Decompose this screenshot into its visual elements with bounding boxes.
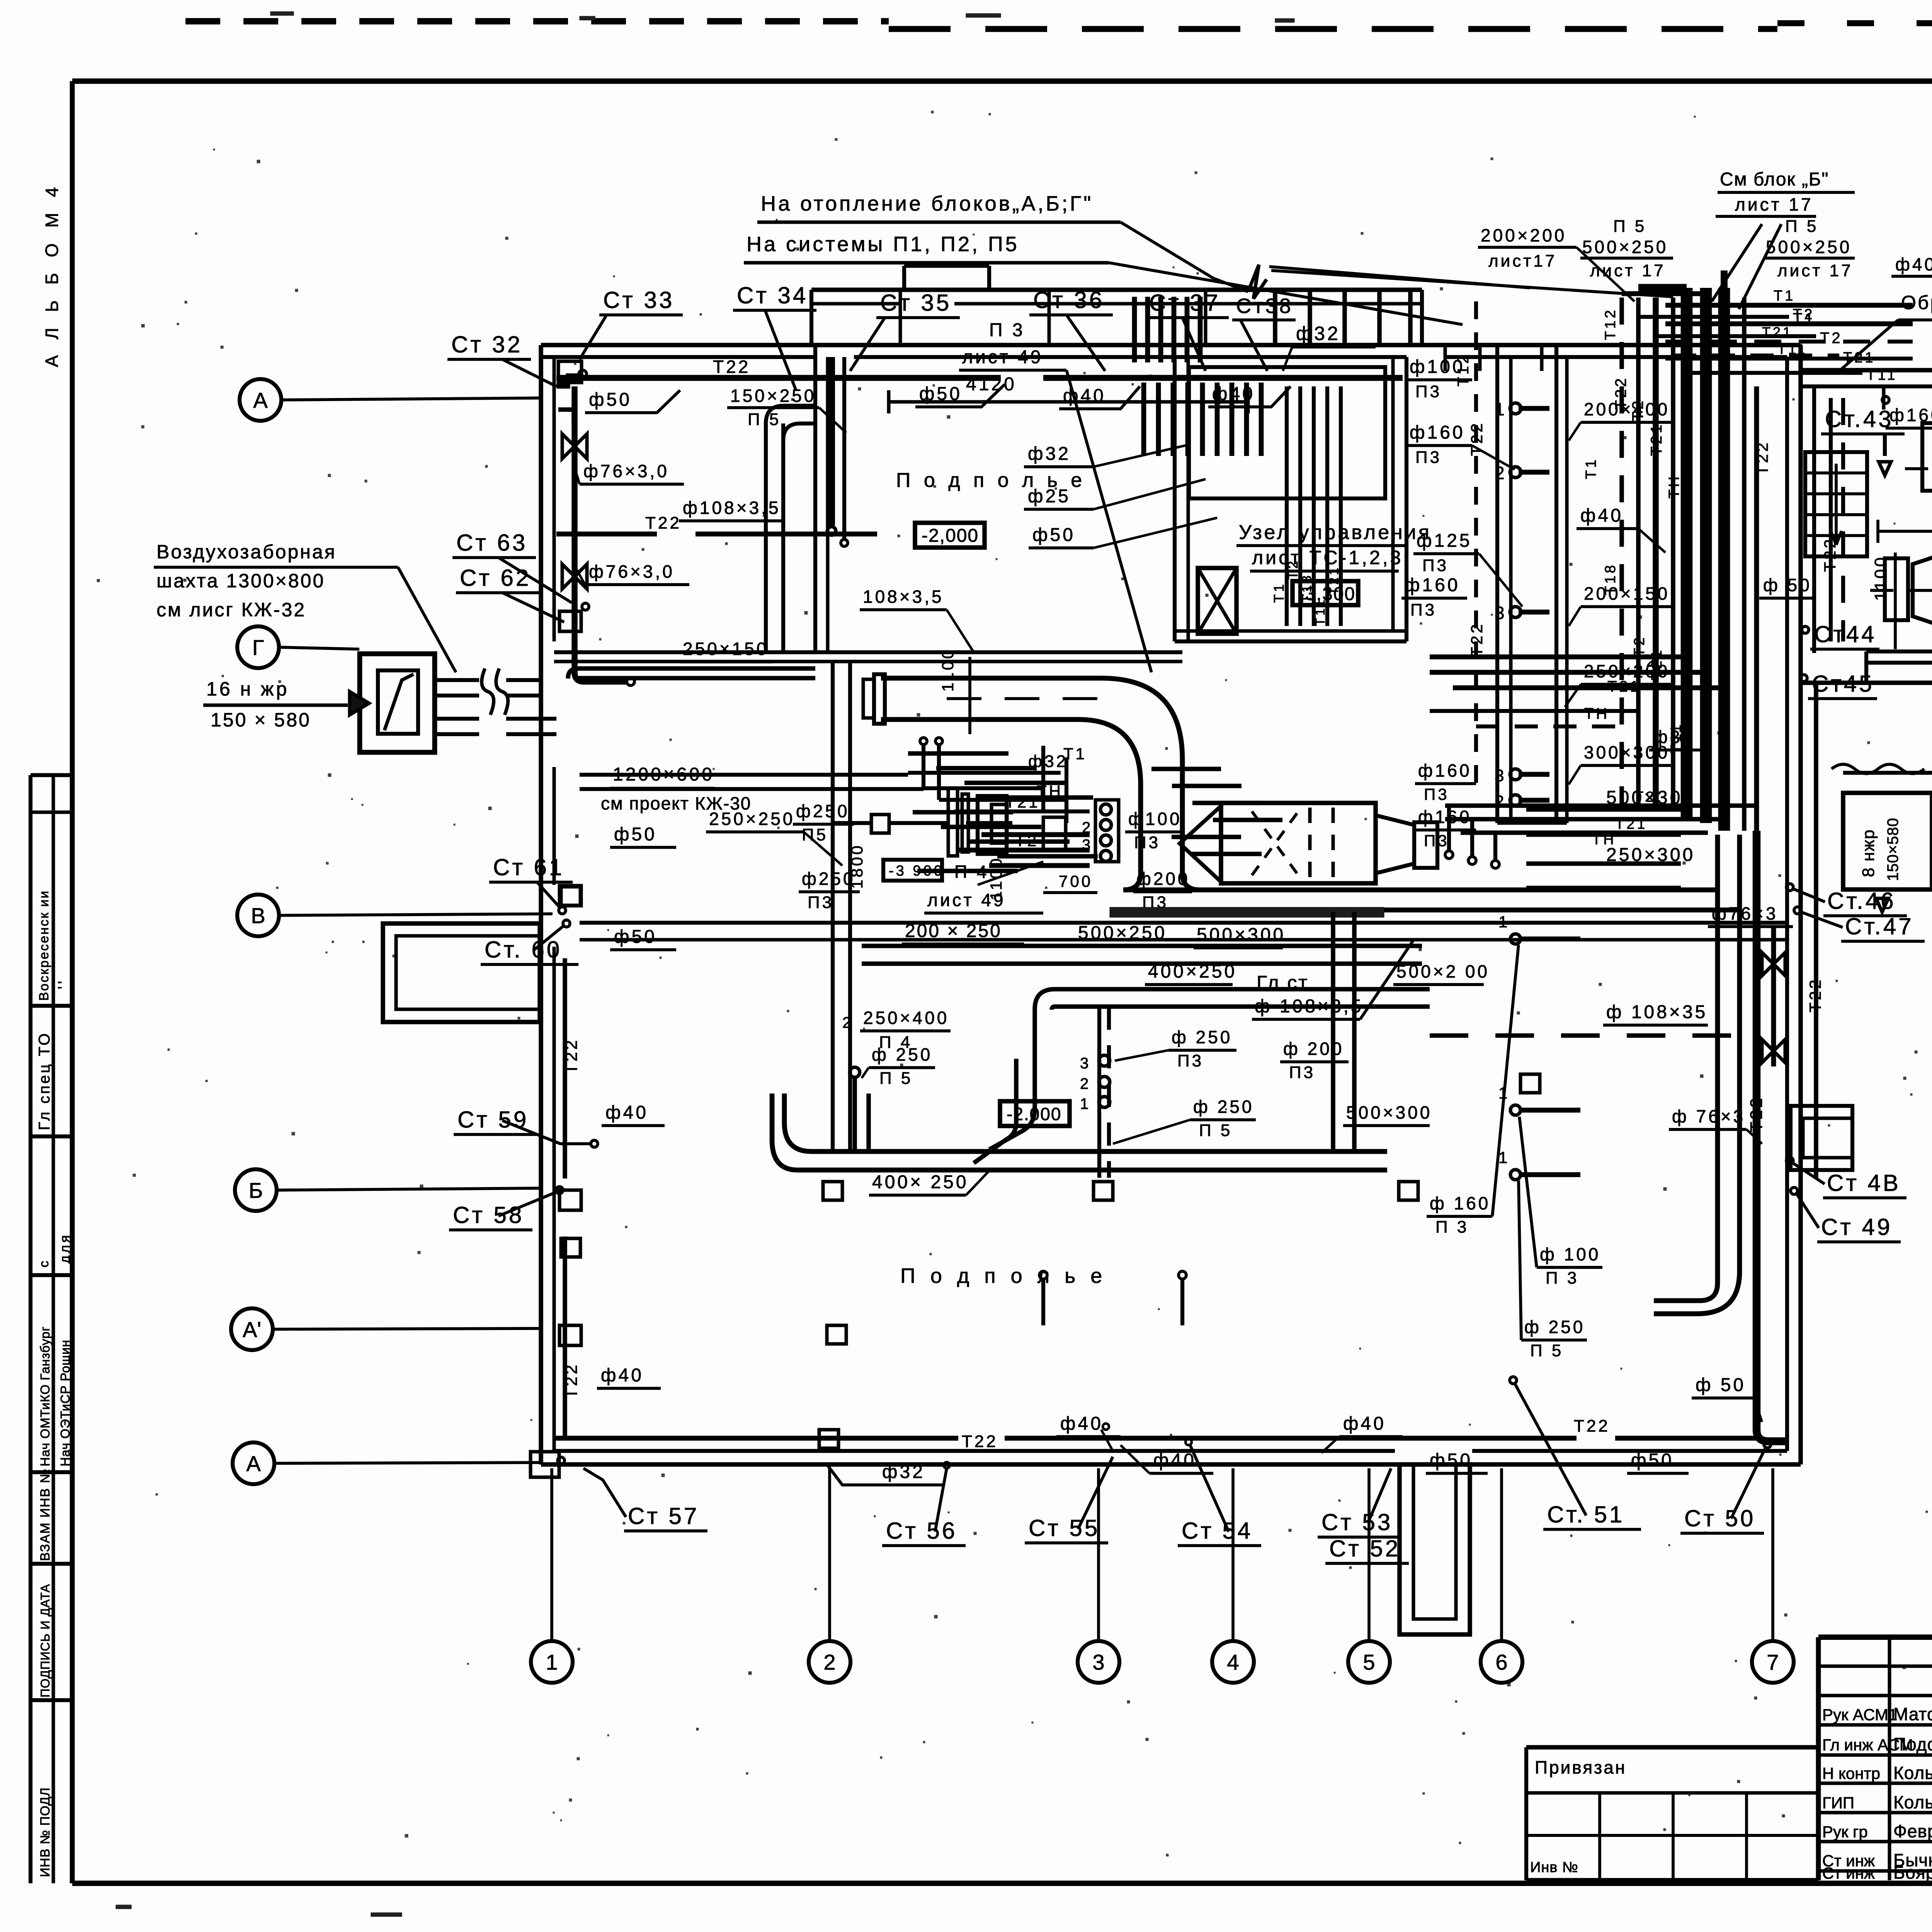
svg-text:500×250: 500×250 [1766, 237, 1852, 257]
svg-text:Т2: Т2 [1634, 653, 1657, 670]
left outer wall [541, 345, 554, 1464]
svg-text:Ст.46: Ст.46 [1827, 888, 1896, 914]
label ф40 bottom (3) [1321, 1413, 1403, 1453]
svg-text:ф40: ф40 [1343, 1413, 1386, 1434]
svg-text:П 5: П 5 [1613, 217, 1646, 236]
stack label Ст 37 [1145, 290, 1229, 371]
svg-text:ТН: ТН [1666, 474, 1682, 498]
label 200x200 лист17 [1478, 225, 1634, 301]
stack Ст.60 [481, 920, 578, 964]
svg-text:Ст 58: Ст 58 [453, 1202, 524, 1228]
svg-text:с: с [37, 1259, 51, 1267]
label ф50 (top left) [585, 389, 680, 413]
svg-text:ф50: ф50 [1430, 1450, 1473, 1471]
axis circle 6 (bottom) [1481, 1468, 1522, 1683]
svg-text:ф32: ф32 [882, 1462, 925, 1482]
svg-text:500×2 00: 500×2 00 [1396, 961, 1490, 981]
label ф50 bottom (2) [1627, 1450, 1689, 1473]
svg-text:ф32: ф32 [1653, 727, 1694, 747]
axis circle 5 (bottom) [1348, 1468, 1390, 1683]
stack Ст 50 [1680, 1441, 1771, 1533]
label ф40 top right [1891, 254, 1932, 276]
svg-text:Т21: Т21 [1648, 422, 1665, 456]
svg-text:П3: П3 [1289, 1063, 1315, 1082]
axis circle Г [237, 626, 359, 668]
annex left interior wall [1812, 386, 1816, 653]
svg-text:ТН: ТН [1592, 832, 1616, 848]
stack label Ст 32 [447, 332, 556, 386]
узел управления label [1236, 521, 1432, 571]
annex top wall [1801, 370, 1932, 386]
svg-text:А: А [246, 1451, 261, 1476]
svg-text:3: 3 [1080, 1055, 1091, 1072]
room rect (ф40 room top) [1189, 367, 1385, 498]
label ф32 Т1 / ТН / Т21 / Т2 small pipe labels [1005, 745, 1087, 850]
label 2(50)... vertical duct П5 pair mid-left [833, 662, 850, 1151]
riser group2 (Т pipes below band) [1271, 386, 1341, 626]
label ф125 П3 [1413, 531, 1522, 607]
svg-text:П 3: П 3 [1435, 1218, 1469, 1236]
stack Ст 58 [449, 1187, 563, 1230]
stack label Ст 36 [1029, 287, 1113, 371]
svg-text:П3: П3 [1134, 833, 1160, 852]
stack Ст.47 [1794, 907, 1925, 941]
label ф40 (corr) [1577, 505, 1665, 553]
svg-text:ф76×3,0: ф76×3,0 [583, 461, 669, 481]
svg-text:ф160: ф160 [1889, 405, 1932, 425]
riser stubs П3 in corridor [1495, 399, 1549, 811]
duct 400x250 run 2 [1035, 989, 1430, 1059]
duct 250x150 under wall [568, 668, 815, 679]
svg-text:1100: 1100 [1871, 555, 1890, 601]
ф76х3 pipe with valves on right wall [1708, 903, 1793, 1066]
stack label Ст 33 [580, 287, 683, 359]
svg-text:200×400: 200×400 [1584, 399, 1670, 419]
note: На системы П1,П2,П5 [744, 233, 1463, 325]
horizontal mains lower (250x200 crossing) [1445, 789, 1754, 868]
label ф32/ф25/ф50 stack [1024, 444, 1217, 548]
svg-text:ф160: ф160 [1418, 807, 1472, 827]
svg-text:Т21: Т21 [1615, 816, 1647, 832]
axis circle 3 (bottom) [1078, 1468, 1119, 1683]
svg-text:Гл спец ТО: Гл спец ТО [36, 1031, 53, 1130]
svg-text:700: 700 [1059, 872, 1093, 890]
stack label Ст 35 [850, 290, 960, 371]
svg-text:для: для [57, 1233, 73, 1264]
pipe T22/T12 dashed vertical (corridor) [1455, 301, 1486, 792]
svg-text:Ст 53: Ст 53 [1321, 1509, 1393, 1535]
svg-text:ф125: ф125 [1417, 531, 1472, 551]
svg-text:400×250: 400×250 [1148, 961, 1237, 982]
svg-text:Т22: Т22 [1747, 1096, 1766, 1132]
label 300x300 [1569, 742, 1673, 784]
stack Ст44 [1802, 621, 1879, 649]
duct under машина to right [1123, 873, 1740, 910]
svg-text:П 3: П 3 [989, 320, 1025, 340]
label 1200x600 / см проект КЖ-30 [601, 764, 751, 813]
elevator shaft (узел упр.) [1198, 568, 1236, 634]
axis circle 2 (bottom) [809, 1468, 850, 1683]
dim 1100 (duct) [939, 648, 970, 734]
insulated main 500x250 (hatched band) [1110, 907, 1384, 917]
svg-text:ф250: ф250 [796, 801, 850, 821]
svg-text:Г: Г [252, 635, 264, 660]
horizontal mains into block (from bundle) [1430, 653, 1724, 726]
svg-text:200×150: 200×150 [1584, 583, 1670, 604]
stack Ст45 [1800, 671, 1877, 699]
axis circle А (bottom) [233, 1442, 540, 1484]
title block (штамп) [1818, 1637, 1932, 1883]
label ф200 П3 (center) [1133, 869, 1192, 912]
stack Ст 55 [1025, 1457, 1113, 1543]
svg-text:Ст 35: Ст 35 [880, 290, 951, 316]
svg-text:Ст.43: Ст.43 [1825, 406, 1894, 432]
label 500x200 [1393, 961, 1490, 985]
svg-text:8 нжр: 8 нжр [1859, 829, 1878, 877]
svg-text:16 н жр: 16 н жр [206, 678, 289, 700]
svg-text:1: 1 [1495, 399, 1507, 419]
svg-text:П 5: П 5 [1199, 1121, 1232, 1140]
svg-text:ф32: ф32 [1028, 444, 1071, 464]
svg-text:А': А' [243, 1317, 261, 1342]
svg-text:Нач ОЭТиСР Рощин: Нач ОЭТиСР Рощин [58, 1340, 72, 1466]
pipe T22 in gap (x4700) lower [1806, 683, 1824, 1179]
label ф50 (2) [915, 384, 1005, 407]
main duct 400x250 bottom run [772, 1094, 1387, 1170]
svg-text:Т11: Т11 [1866, 367, 1898, 383]
riser stub 2 (ф100) [1498, 1084, 1602, 1287]
stack label Ст 34 [733, 282, 816, 390]
svg-text:ф100: ф100 [1128, 809, 1182, 829]
svg-text:250×400: 250×400 [863, 1008, 949, 1028]
svg-text:ф76×3: ф76×3 [1712, 903, 1778, 923]
svg-text:Ст 55: Ст 55 [1029, 1515, 1100, 1541]
svg-text:ВЗАМ ИНВ №: ВЗАМ ИНВ № [38, 1468, 53, 1561]
svg-text:Т21: Т21 [1327, 565, 1341, 595]
label ф50 left wall (x1590) [610, 824, 676, 847]
svg-text:Т11: Т11 [1777, 341, 1807, 357]
svg-text:П о д п о л ь е: П о д п о л ь е [900, 1264, 1107, 1287]
svg-text:Подольский: Подольский [1893, 1734, 1932, 1754]
axis circle Б [235, 1169, 540, 1211]
label ф250 П5 (x2077) [793, 801, 854, 844]
stack label Ст38 [1232, 294, 1296, 371]
label ф50 right of room [0, 0, 0, 0]
riser ф250 П5 at x2210 [850, 1044, 935, 1151]
svg-text:Ст44: Ст44 [1814, 621, 1877, 647]
привязан table [1526, 1747, 1818, 1880]
svg-text:Ст 32: Ст 32 [451, 332, 522, 357]
svg-text:Ст 59: Ст 59 [457, 1107, 529, 1133]
svg-text:Т1: Т1 [1271, 582, 1287, 603]
svg-text:П3: П3 [1410, 600, 1437, 619]
svg-text:Т12: Т12 [1602, 308, 1619, 340]
column squares [561, 887, 1540, 1448]
thick pipe pair drop (x2155) [827, 357, 848, 546]
svg-text:ф40: ф40 [1060, 1413, 1103, 1434]
vertical pipes Т22 strip (annex left) [1821, 398, 1843, 641]
label ф200 П3 (bottom) [1280, 1039, 1349, 1082]
heater/fan unit П4 cluster [833, 788, 1066, 856]
axis circle А' [231, 1308, 540, 1350]
label ф40 bottom (2) [1121, 1445, 1213, 1473]
leader arrow to bundle [1248, 265, 1673, 299]
svg-text:ф100: ф100 [1410, 357, 1465, 377]
svg-text:Ст 56: Ст 56 [886, 1518, 957, 1544]
svg-text:Т22: Т22 [1468, 622, 1486, 657]
label 200x400 [1569, 399, 1673, 440]
pipes box to wall with breaks [435, 668, 556, 734]
wall stub marks near Ст62 [560, 603, 589, 631]
stub Ст32/33 marks [556, 361, 587, 423]
svg-text:На отопление блоков„А,Б;Г": На отопление блоков„А,Б;Г" [761, 192, 1093, 215]
inner vertical wall x3040 [1175, 357, 1188, 641]
svg-text:лист17: лист17 [1488, 252, 1557, 270]
rat's nest center extra [908, 753, 1282, 871]
bundle labels [1583, 308, 1684, 753]
svg-text:3: 3 [1092, 1650, 1104, 1674]
svg-text:500×300: 500×300 [1346, 1102, 1432, 1122]
small pipes cluster (теплообменный узел) [580, 738, 1090, 866]
wall line below center [580, 923, 1787, 940]
stack Ст 61 [489, 854, 573, 914]
label ф32 (bundle) [1649, 727, 1708, 750]
album label АЛЬБОМ 4 (vertical, left margin) [42, 182, 62, 367]
corridor walls right of УУ [1497, 345, 1567, 823]
svg-text:Ст 61: Ст 61 [493, 854, 564, 880]
svg-text:Т1: Т1 [1583, 457, 1599, 479]
svg-text:шахта 1300×800: шахта 1300×800 [156, 570, 325, 592]
label 108x3,5 (wall) [860, 587, 974, 652]
svg-text:1: 1 [1498, 1148, 1510, 1167]
stack Ст 49 [1791, 1187, 1901, 1242]
label ф100 П3 (corr) [1406, 357, 1472, 401]
supply unit П7 (вентагрегат 2) [1870, 556, 1932, 624]
label ф32 bottom [827, 1462, 943, 1485]
label ф100 П3 (center) [1125, 809, 1182, 852]
svg-text:Ст 54: Ст 54 [1182, 1518, 1253, 1544]
inner wall below подполье rooms [554, 652, 1182, 662]
svg-text:7: 7 [1767, 1650, 1779, 1674]
label ф76x3 right bottom [1669, 1106, 1762, 1144]
svg-text:Ст38: Ст38 [1236, 294, 1293, 318]
dim 1000 [1878, 507, 1932, 543]
label Т22 vertical left (1) [562, 958, 581, 1179]
label 16 НЖР 150x580 [203, 678, 369, 731]
stack Ст 56 [882, 1462, 966, 1546]
svg-text:Т2: Т2 [1634, 789, 1656, 805]
svg-text:1: 1 [1080, 1095, 1091, 1112]
8 НЖР shaft [1832, 764, 1932, 912]
stack Ст.51 [1510, 1377, 1641, 1529]
svg-text:Ст 33: Ст 33 [603, 287, 674, 313]
labels 200x250 500x250 500x300 [902, 921, 1286, 948]
duct П5 riser (150x250) vertical [766, 406, 815, 652]
svg-text:см лисг КЖ-32: см лисг КЖ-32 [156, 599, 306, 621]
svg-text:2: 2 [823, 1650, 835, 1674]
left margin stamp column [31, 775, 74, 1883]
svg-text:ф50: ф50 [614, 927, 657, 947]
stack Ст 59 [454, 1107, 598, 1147]
duct stub 250x300 [1526, 845, 1695, 888]
label ф40 left (1) [602, 1102, 665, 1126]
stack label Ст 42 area (right wall top) [1882, 396, 1889, 403]
label ф50 right lower [1692, 1375, 1762, 1422]
label 400x250 (bottom left) [869, 1171, 989, 1195]
svg-text:ф 50: ф 50 [1763, 575, 1812, 595]
horizontal mains upper (Т1,Т2) [1638, 310, 1898, 383]
axis circle 1 (bottom) [531, 1468, 573, 1683]
dim 1100 annex [1871, 553, 1895, 649]
label ф250 П5 (bottom) [1113, 1097, 1256, 1144]
svg-text:ф 160: ф 160 [1430, 1193, 1490, 1213]
svg-text:'': '' [55, 979, 72, 989]
riser pair with circles bottom center [1080, 1007, 1110, 1178]
pit below В axis [383, 923, 540, 1022]
svg-text:лист 17: лист 17 [1777, 261, 1853, 280]
label См блок Б лист17 [1712, 169, 1855, 309]
label ф76х3,0 (2) [576, 561, 689, 585]
svg-text:Т21: Т21 [1607, 678, 1641, 695]
bundle turn into block (top) [1622, 270, 1724, 294]
riser group below Ст37 band [1134, 297, 1261, 456]
stack Ст 57 [583, 1468, 707, 1531]
svg-text:1100: 1100 [987, 856, 1005, 900]
svg-text:Т22: Т22 [962, 1432, 998, 1451]
svg-text:лист 17: лист 17 [1590, 261, 1666, 280]
stack Ст.46 [1786, 884, 1907, 916]
svg-text:Воздухозаборная: Воздухозаборная [156, 541, 337, 563]
label ф160 П3 (corr4) [1415, 807, 1476, 850]
annex mains horizontal (Т1,Т2,Т21,Т11) [1665, 288, 1913, 359]
svg-text:Т22: Т22 [1806, 978, 1824, 1012]
svg-text:ИНВ № ПОДЛ: ИНВ № ПОДЛ [38, 1787, 53, 1877]
label ф32 top [1283, 323, 1376, 371]
duct stub 500x300 [1526, 787, 1708, 835]
svg-text:ф32: ф32 [1296, 323, 1340, 344]
svg-text:500×250: 500×250 [1582, 237, 1668, 257]
svg-text:Инв №: Инв № [1530, 1859, 1578, 1876]
label ф50 bottom (1) [1426, 1450, 1488, 1473]
bottom corner stub [531, 1452, 565, 1477]
axis circle В [237, 895, 553, 936]
label ф250 П3 (x2090) [799, 869, 860, 912]
svg-text:Т22: Т22 [645, 514, 682, 532]
svg-text:200 × 250: 200 × 250 [905, 921, 1002, 941]
svg-text:ф 250: ф 250 [1524, 1317, 1585, 1337]
svg-text:Т13: Т13 [1299, 573, 1314, 603]
svg-text:ф 100: ф 100 [1540, 1244, 1600, 1264]
svg-text:Т22: Т22 [1821, 537, 1839, 572]
svg-text:ф 108×3,5: ф 108×3,5 [1255, 996, 1364, 1017]
note: Обратный трубопровод из блока Б [1839, 292, 1932, 371]
axis circle 7 (bottom) [1752, 1468, 1794, 1683]
T22 pipe drop left wall [562, 386, 634, 685]
svg-text:Ст 57: Ст 57 [628, 1503, 699, 1529]
big supply duct horizontal (П3 лист49) [863, 674, 1182, 873]
label ф40 left (2) [597, 1365, 661, 1388]
svg-text:ф40: ф40 [601, 1365, 644, 1386]
svg-text:Кольцова: Кольцова [1893, 1792, 1932, 1812]
svg-text:Привязан: Привязан [1535, 1757, 1626, 1777]
svg-text:6: 6 [1495, 1650, 1507, 1674]
axis circle А (top row A) [240, 379, 540, 421]
svg-text:ф 76×3: ф 76×3 [1672, 1106, 1745, 1126]
supply unit П6 (вентагрегат) [1905, 423, 1932, 504]
svg-text:150 × 580: 150 × 580 [211, 709, 311, 731]
svg-text:ф 250: ф 250 [1193, 1097, 1254, 1117]
svg-text:Н контр: Н контр [1822, 1764, 1880, 1782]
wall ticks top band right part [1275, 290, 1542, 371]
label ф76х3,0 (1) [575, 461, 684, 484]
inner vertical wall x2110 [815, 345, 828, 652]
svg-text:Т2: Т2 [1285, 559, 1301, 580]
svg-text:Т2: Т2 [1793, 306, 1815, 323]
svg-text:Ст 62: Ст 62 [460, 565, 531, 591]
svg-text:ф 250: ф 250 [1172, 1027, 1232, 1047]
label П5 500x250 лист17 (2) [1764, 217, 1855, 280]
svg-text:ф160: ф160 [1410, 422, 1465, 443]
stack Ст 52 [1325, 1536, 1409, 1563]
label ф40 (right top) [1208, 384, 1291, 407]
svg-text:Обратный трубопровод из бло: Обратный трубопровод из блока „Б" [1901, 292, 1932, 313]
svg-text:ГИП: ГИП [1822, 1794, 1854, 1812]
подполье room label (upper) [896, 469, 1086, 492]
svg-text:1: 1 [546, 1650, 558, 1674]
svg-text:Рук АСМ1: Рук АСМ1 [1822, 1706, 1897, 1724]
wall stub marks B [560, 886, 581, 1345]
svg-text:Матоян: Матоян [1893, 1704, 1932, 1724]
riser circles column (П3 connections) [1082, 800, 1119, 862]
воздухозаборная шахта text (left) [154, 541, 456, 672]
svg-text:ПОДПИСЬ И ДАТА: ПОДПИСЬ И ДАТА [38, 1584, 52, 1697]
svg-text:ф50: ф50 [614, 824, 657, 845]
pipe T22 bottom horizontal [554, 1417, 1757, 1451]
svg-text:ф50: ф50 [589, 389, 632, 410]
label ф250 П3 (bottom) [1115, 1027, 1236, 1070]
label 150x250 П5 [727, 386, 846, 433]
label ф108x35 dashed main [1430, 1002, 1757, 1036]
svg-text:См блок „Б": См блок „Б" [1720, 169, 1829, 190]
svg-text:500×300: 500×300 [1197, 925, 1286, 945]
svg-text:П3: П3 [808, 893, 834, 912]
label 250x150 [680, 639, 773, 662]
svg-text:2: 2 [1495, 792, 1506, 811]
svg-text:Б: Б [249, 1178, 263, 1202]
elevation box -3,300 [1293, 581, 1358, 605]
svg-text:2: 2 [1495, 463, 1507, 483]
svg-text:Т11: Т11 [1313, 597, 1328, 626]
svg-text:П 5: П 5 [1530, 1341, 1563, 1360]
svg-text:А Л Ь Б О М 4: А Л Ь Б О М 4 [42, 182, 62, 367]
svg-text:П 5: П 5 [879, 1069, 913, 1088]
svg-text:Воскресенск ии: Воскресенск ии [37, 890, 51, 1001]
svg-text:Нач ОМТиКО Ганзбург: Нач ОМТиКО Ганзбург [38, 1326, 52, 1466]
svg-text:250×250: 250×250 [709, 809, 795, 829]
svg-text:1: 1 [1498, 1084, 1510, 1102]
svg-text:Т21: Т21 [1762, 324, 1793, 340]
stack Ст.43 + ф160 [1821, 386, 1932, 475]
svg-text:3: 3 [1495, 766, 1506, 785]
svg-text:ф50: ф50 [1032, 525, 1075, 545]
vertical duct machine-to-bottom [1333, 912, 1354, 1151]
label П5 500x250 лист17 (1) [1580, 217, 1673, 280]
label Т22 vertical gap [1753, 386, 1771, 831]
sheet top trim dashed line (scan artifact) [185, 21, 1932, 37]
svg-text:ТН: ТН [1584, 705, 1609, 722]
svg-text:Ст 63: Ст 63 [456, 530, 527, 556]
svg-text:Ст 4В: Ст 4В [1827, 1170, 1901, 1196]
